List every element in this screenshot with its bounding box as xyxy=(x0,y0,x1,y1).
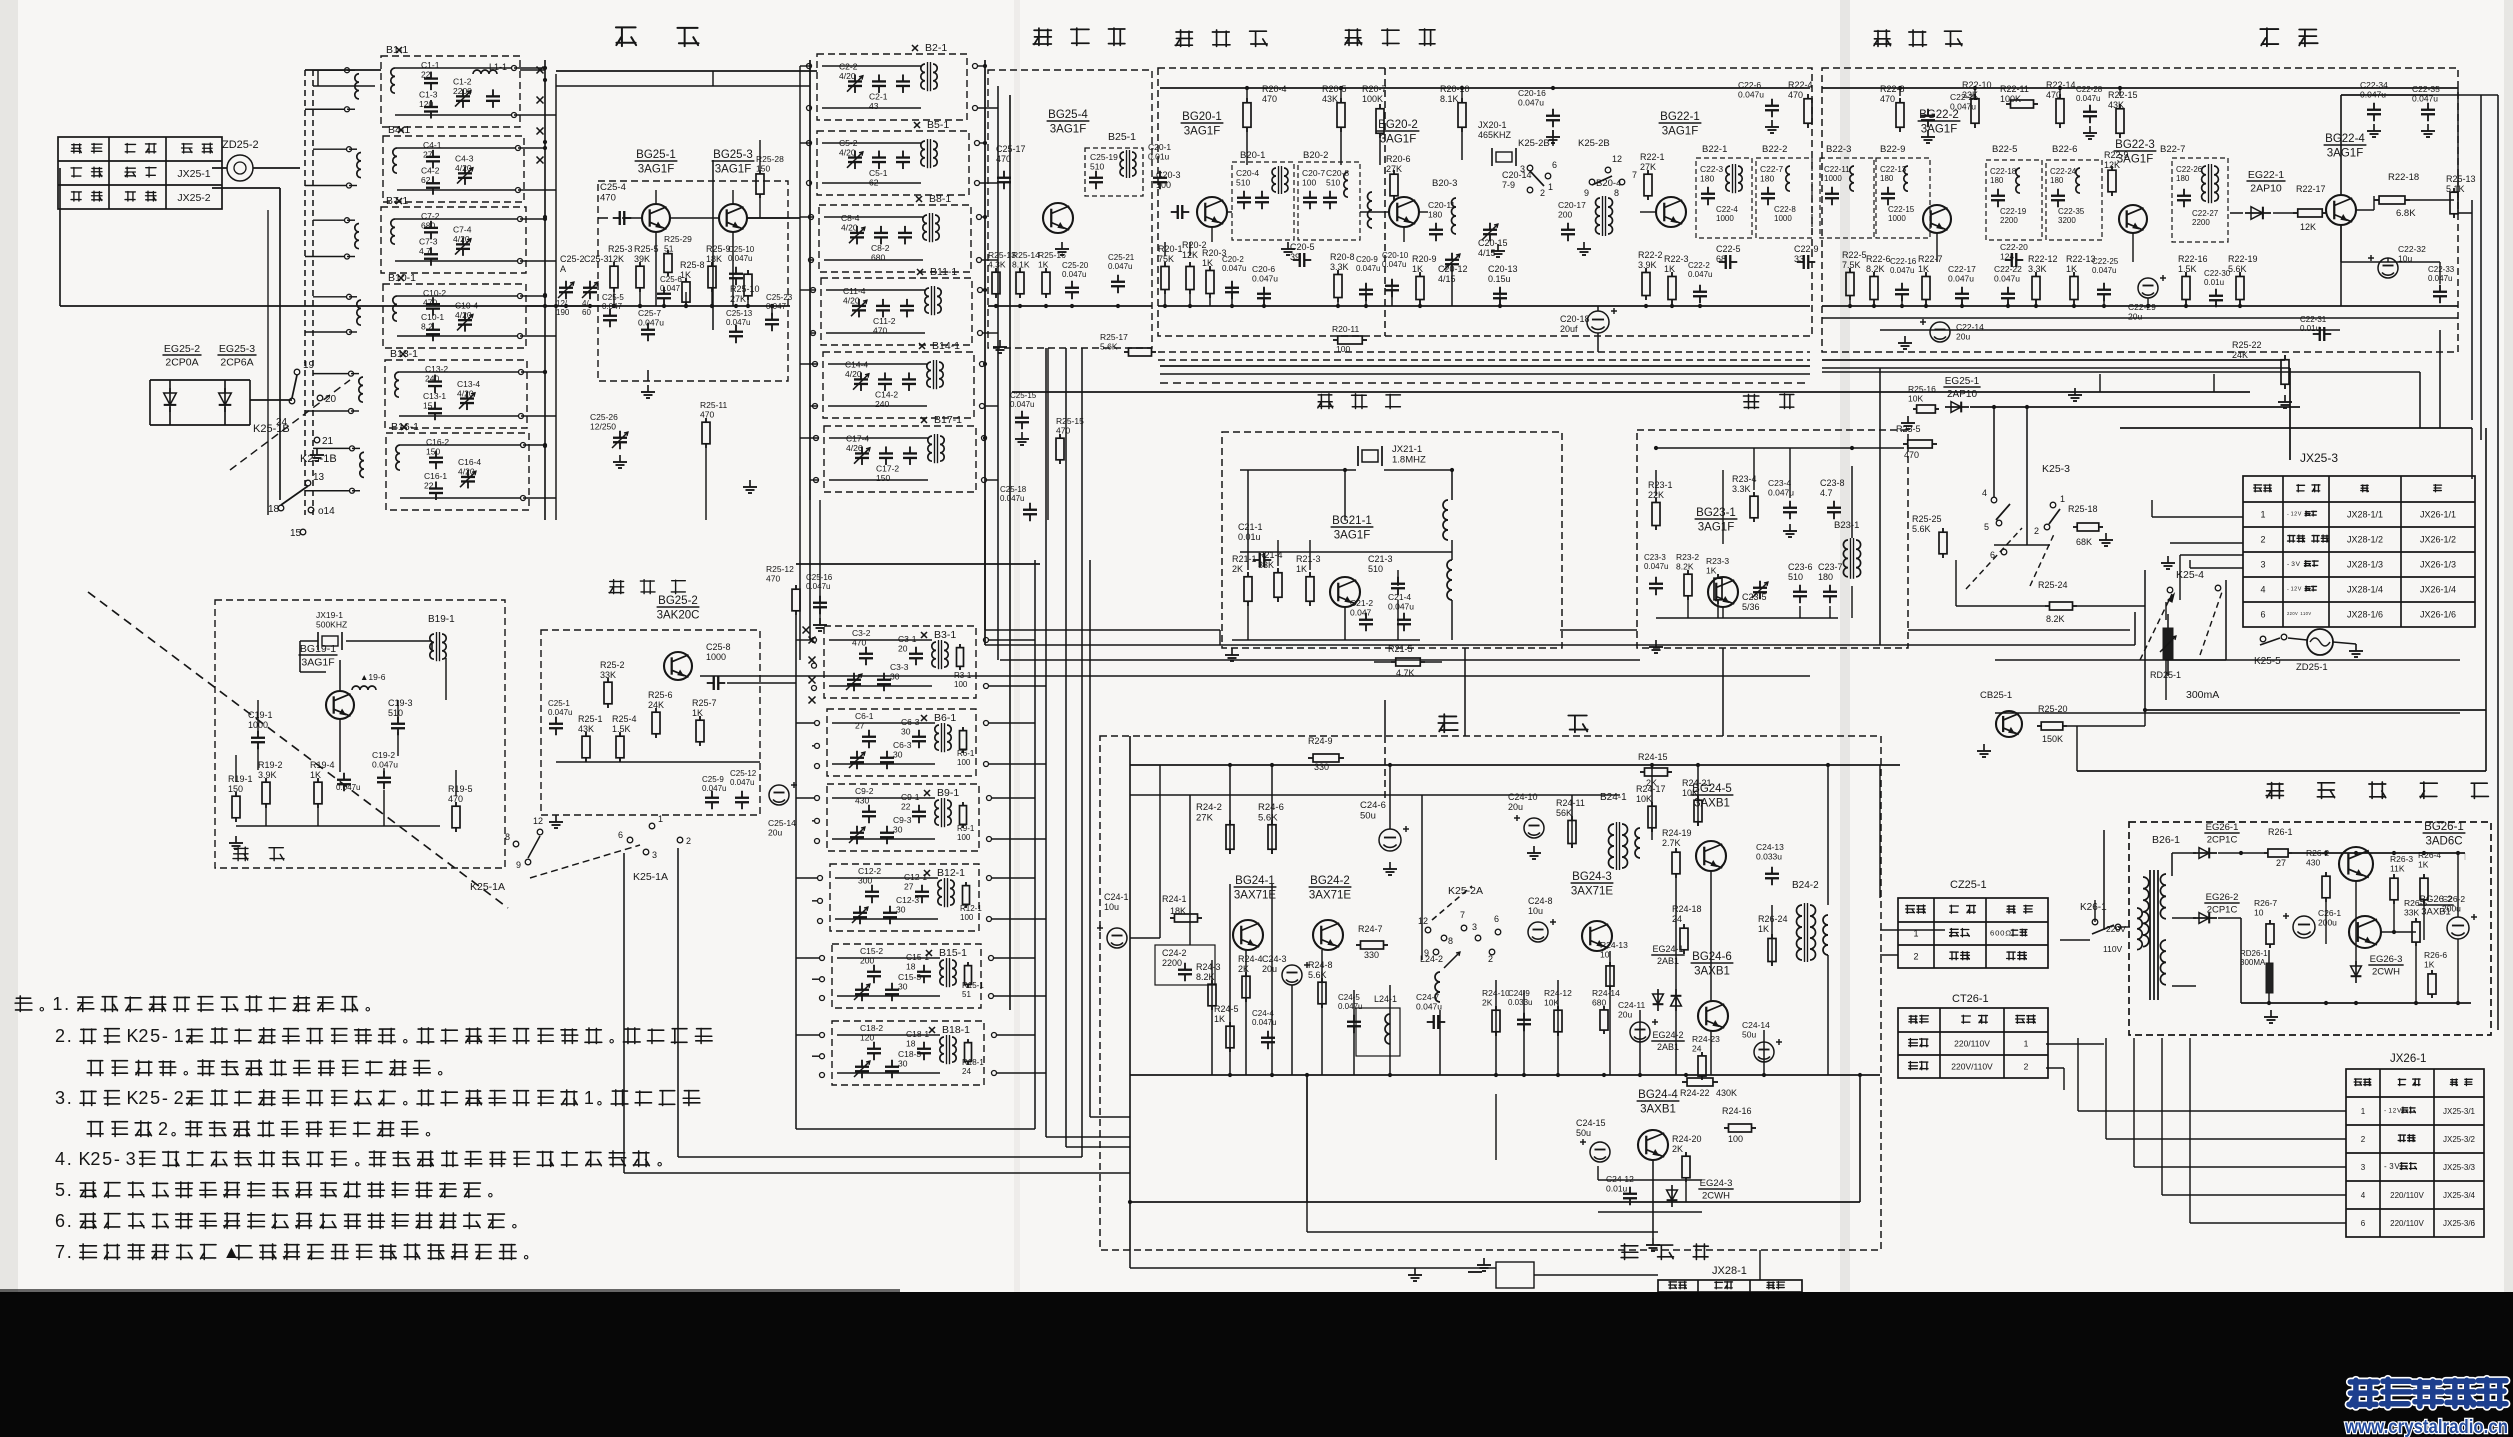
svg-text:1: 1 xyxy=(2361,1107,2366,1116)
IF transformer B15-1 xyxy=(940,960,944,985)
wire into table xyxy=(2152,516,2243,518)
svg-text:V: V xyxy=(2308,611,2311,616)
wire 扁放 internals xyxy=(300,640,318,642)
svg-text:3AG1F: 3AG1F xyxy=(1662,126,1698,138)
svg-text:24: 24 xyxy=(1692,1044,1702,1054)
svg-text:1K: 1K xyxy=(1918,264,1929,274)
svg-text:2: 2 xyxy=(138,1026,148,1046)
svg-text:100: 100 xyxy=(954,680,968,689)
svg-text:JX25-3/4: JX25-3/4 xyxy=(2443,1191,2476,1200)
svg-text:V: V xyxy=(2298,512,2302,518)
svg-text:B17-1: B17-1 xyxy=(934,414,962,426)
svg-text:1K: 1K xyxy=(1758,924,1769,934)
diode EG26-3 xyxy=(2355,961,2357,983)
svg-text:B6-1: B6-1 xyxy=(934,712,956,724)
wire long bus xyxy=(60,305,556,307)
svg-text:C24-4: C24-4 xyxy=(1252,1009,1274,1018)
IF transformer B11-1 xyxy=(925,288,929,313)
diode pair EG24-1/EG24-2 xyxy=(1657,989,1659,1011)
svg-text:EG26-2: EG26-2 xyxy=(2206,892,2239,903)
svg-text:C4-2: C4-2 xyxy=(421,166,440,176)
svg-text:C17-2: C17-2 xyxy=(876,464,899,474)
svg-text:C14-2: C14-2 xyxy=(875,390,898,400)
svg-text:150K: 150K xyxy=(2042,734,2063,744)
svg-text:1K: 1K xyxy=(2066,264,2077,274)
svg-text:330: 330 xyxy=(1314,762,1329,772)
svg-text:12/250: 12/250 xyxy=(590,422,616,432)
svg-text:C25-7: C25-7 xyxy=(638,308,661,318)
resistor R9-1 xyxy=(962,802,964,806)
wire xyxy=(2230,212,2243,214)
svg-text:3.3K: 3.3K xyxy=(2028,264,2047,274)
svg-text:K25-3: K25-3 xyxy=(2042,463,2070,475)
svg-text:R25-8: R25-8 xyxy=(680,260,705,270)
svg-text:C22-26: C22-26 xyxy=(2176,165,2203,174)
wire xyxy=(2292,852,2465,854)
svg-text:510: 510 xyxy=(1326,178,1340,188)
ground xyxy=(1414,1268,1416,1275)
transistor BG25-2 xyxy=(664,652,692,680)
svg-text:0.047u: 0.047u xyxy=(638,318,664,328)
svg-text:K: K xyxy=(127,1088,139,1108)
svg-text:8.2K: 8.2K xyxy=(1676,562,1694,572)
svg-text:C22-17: C22-17 xyxy=(1948,264,1976,274)
svg-text:B19-1: B19-1 xyxy=(428,614,455,625)
band filter B6-1 xyxy=(827,709,976,776)
svg-text:C22-3: C22-3 xyxy=(1700,164,1723,174)
svg-text:C22-25: C22-25 xyxy=(2092,257,2119,266)
wire xyxy=(835,877,938,879)
wire col2-col3 link verticals xyxy=(984,500,986,630)
svg-text:B18-1: B18-1 xyxy=(942,1024,970,1036)
svg-text:R25-29: R25-29 xyxy=(664,234,692,244)
svg-text:5/36: 5/36 xyxy=(1742,602,1760,612)
svg-text:10: 10 xyxy=(2254,908,2264,918)
svg-text:240: 240 xyxy=(425,374,439,384)
wire xyxy=(1970,406,2300,408)
wire bus xyxy=(988,305,1152,307)
svg-text:B20-3: B20-3 xyxy=(1432,178,1457,189)
svg-text:V: V xyxy=(2394,1162,2400,1171)
svg-text:B3-1: B3-1 xyxy=(934,629,956,641)
svg-text:C23-5: C23-5 xyxy=(1742,592,1767,602)
svg-text:470: 470 xyxy=(766,574,780,584)
svg-text:50u: 50u xyxy=(1742,1030,1756,1040)
band filter B5-1 xyxy=(817,131,969,195)
svg-text:1K: 1K xyxy=(1202,258,1213,268)
transistor BG25-1 xyxy=(642,204,670,232)
svg-text:BG23-1: BG23-1 xyxy=(1696,507,1736,519)
svg-text:3AG1F: 3AG1F xyxy=(301,657,334,669)
wire xyxy=(1656,617,1838,619)
svg-text:3AXB1: 3AXB1 xyxy=(1694,798,1730,810)
transistor BG24-3 xyxy=(1582,921,1612,951)
svg-text:R25-9: R25-9 xyxy=(706,244,731,254)
svg-text:C24-6: C24-6 xyxy=(1360,800,1386,811)
svg-text:C6-3: C6-3 xyxy=(901,717,920,727)
wire detector area xyxy=(2341,261,2440,263)
svg-text:0.047u: 0.047u xyxy=(1062,270,1086,279)
svg-text:8.2K: 8.2K xyxy=(1866,264,1885,274)
svg-text:B12-1: B12-1 xyxy=(937,867,965,879)
wire col3 terminals xyxy=(796,639,811,641)
svg-text:0.01u: 0.01u xyxy=(1148,152,1170,162)
svg-text:EG24-2: EG24-2 xyxy=(1652,1030,1683,1040)
wire 高放 links xyxy=(598,217,608,219)
wire xyxy=(822,65,921,67)
svg-text:12: 12 xyxy=(533,816,543,826)
svg-text:0.047u: 0.047u xyxy=(1252,274,1278,284)
wire xyxy=(2060,939,2090,941)
wire xyxy=(2078,1110,2346,1112)
svg-text:R23-2: R23-2 xyxy=(1676,552,1699,562)
svg-text:5: 5 xyxy=(150,1088,160,1108)
svg-text:B20-1: B20-1 xyxy=(1240,150,1265,161)
svg-text:75K: 75K xyxy=(1158,254,1174,264)
svg-text:C20-9: C20-9 xyxy=(1356,255,1378,264)
IF transformer B8-1 xyxy=(923,215,927,240)
electrolytic C22-29 xyxy=(2138,278,2158,298)
svg-text:.: . xyxy=(64,994,69,1014)
svg-text:C7-4: C7-4 xyxy=(453,225,472,235)
wire xyxy=(837,1034,940,1036)
transistor BG24-6 xyxy=(1698,1001,1728,1031)
svg-text:20: 20 xyxy=(325,394,337,405)
wire xyxy=(826,289,925,291)
svg-text:0.047u: 0.047u xyxy=(1108,262,1132,271)
svg-text:B22-7: B22-7 xyxy=(2160,144,2185,155)
svg-text:JX28-1/1: JX28-1/1 xyxy=(2347,510,2383,520)
svg-text:R24-6: R24-6 xyxy=(1258,802,1284,813)
notes text line 3 xyxy=(87,1060,103,1075)
svg-text:3: 3 xyxy=(1472,922,1477,932)
svg-text:R25-16: R25-16 xyxy=(1038,250,1066,260)
svg-text:C25-1: C25-1 xyxy=(548,699,570,708)
svg-text:C25-18: C25-18 xyxy=(1000,485,1027,494)
svg-text:3AG1F: 3AG1F xyxy=(1698,522,1734,534)
junction dots audio top bus xyxy=(1228,763,1232,767)
svg-text:8.2: 8.2 xyxy=(421,322,433,332)
band filter B1-1 xyxy=(381,56,520,127)
notes text line 5 xyxy=(87,1121,103,1136)
svg-text:R20-1: R20-1 xyxy=(1158,244,1183,254)
svg-text:JX26-1: JX26-1 xyxy=(2390,1053,2426,1065)
wire xyxy=(279,210,281,500)
battery table (cut) xyxy=(1658,1280,1802,1292)
wire xyxy=(795,615,797,1129)
dashed inner divider xyxy=(1384,68,1386,336)
svg-text:180: 180 xyxy=(1428,210,1442,220)
svg-text:C22-33: C22-33 xyxy=(2428,265,2455,274)
svg-text:C7-3: C7-3 xyxy=(419,237,438,247)
svg-text:500KHZ: 500KHZ xyxy=(316,620,347,630)
svg-text:200: 200 xyxy=(1558,210,1572,220)
svg-text:.: . xyxy=(67,1242,72,1262)
svg-text:C1-3: C1-3 xyxy=(419,89,438,99)
svg-text:1: 1 xyxy=(2060,494,2065,504)
band filter B8-1 xyxy=(819,205,971,272)
svg-text:120: 120 xyxy=(419,99,433,109)
svg-text:C26-2: C26-2 xyxy=(2442,894,2465,904)
svg-text:B1-1: B1-1 xyxy=(386,44,408,56)
svg-text:R24-1: R24-1 xyxy=(1162,894,1187,904)
svg-text:B24-1: B24-1 xyxy=(1600,792,1627,803)
transistor BG23-1 xyxy=(1708,577,1738,607)
svg-text:BG25-2: BG25-2 xyxy=(658,595,698,607)
svg-text:180: 180 xyxy=(1760,174,1774,184)
wire xyxy=(2077,770,2486,772)
svg-text:2K: 2K xyxy=(1238,964,1249,974)
svg-text:R24-17: R24-17 xyxy=(1636,784,1666,794)
svg-text:C26-1: C26-1 xyxy=(2318,908,2341,918)
svg-text:1000: 1000 xyxy=(706,652,726,662)
svg-text:470: 470 xyxy=(1880,94,1895,104)
svg-text:4/20: 4/20 xyxy=(841,223,858,233)
svg-text:3AG1F: 3AG1F xyxy=(715,164,751,176)
svg-text:1K: 1K xyxy=(692,708,703,718)
svg-text:C25-9: C25-9 xyxy=(702,775,724,784)
wire xyxy=(399,371,518,373)
wire xyxy=(556,761,760,763)
ground xyxy=(1483,1258,1485,1265)
svg-text:K26-1: K26-1 xyxy=(2080,902,2107,913)
svg-text:0.047u: 0.047u xyxy=(1222,264,1246,273)
ground xyxy=(555,815,557,822)
svg-text:200u: 200u xyxy=(2318,918,2337,928)
svg-text:470: 470 xyxy=(600,193,616,204)
band filter B2-1 xyxy=(817,54,967,120)
svg-text:150: 150 xyxy=(426,447,440,457)
svg-text:R12-1: R12-1 xyxy=(960,904,982,913)
svg-text:C24-13: C24-13 xyxy=(1756,842,1784,852)
svg-text:7.5K: 7.5K xyxy=(1842,260,1861,270)
wire xyxy=(212,167,227,169)
svg-text:C16-1: C16-1 xyxy=(424,471,447,481)
svg-text:2K: 2K xyxy=(1672,1144,1683,1154)
svg-text:2200: 2200 xyxy=(2000,216,2018,225)
svg-text:R24-13: R24-13 xyxy=(1600,940,1628,950)
svg-text:BG19-1: BG19-1 xyxy=(300,643,336,655)
svg-text:0.15u: 0.15u xyxy=(1488,274,1511,284)
svg-text:R20-11: R20-11 xyxy=(1332,324,1360,334)
svg-text:EG26-3: EG26-3 xyxy=(2370,954,2403,965)
svg-text:B22-9: B22-9 xyxy=(1880,144,1905,155)
svg-text:470: 470 xyxy=(1904,450,1919,460)
band filter B18-1 xyxy=(832,1021,984,1085)
ground xyxy=(1771,120,1773,127)
svg-text:0.047u: 0.047u xyxy=(1338,1002,1362,1011)
svg-text:R6-1: R6-1 xyxy=(957,749,975,758)
svg-text:R26-7: R26-7 xyxy=(2254,898,2277,908)
svg-text:4: 4 xyxy=(1982,488,1987,498)
wire 低放 internal buses xyxy=(1130,794,1620,796)
wire from HF amp to col2 xyxy=(747,217,800,219)
transistor BG22-4 xyxy=(2326,195,2356,225)
svg-text:4: 4 xyxy=(2260,585,2265,595)
svg-text:C24-14: C24-14 xyxy=(1742,1020,1770,1030)
transistor BG20-2 xyxy=(1389,197,1419,227)
IF transformer B17-1 xyxy=(928,436,932,461)
svg-text:BG21-1: BG21-1 xyxy=(1332,515,1372,527)
svg-text:C22-18: C22-18 xyxy=(1990,167,2017,176)
dashed box 低放 xyxy=(1100,736,1881,1250)
svg-text:R25-24: R25-24 xyxy=(2038,580,2068,590)
svg-text:C20-18: C20-18 xyxy=(1560,314,1590,324)
svg-text:C19-2: C19-2 xyxy=(372,750,395,760)
svg-text:R20-9: R20-9 xyxy=(1412,254,1437,264)
svg-text:18K: 18K xyxy=(1170,906,1186,916)
svg-text:7: 7 xyxy=(55,1242,65,1262)
svg-text:BG20-1: BG20-1 xyxy=(1182,111,1222,123)
svg-text:C22-29: C22-29 xyxy=(2128,302,2156,312)
resistor R24-22 xyxy=(1682,1081,1687,1083)
ground xyxy=(1983,744,1985,751)
svg-text:R9-1: R9-1 xyxy=(957,824,975,833)
svg-text:180: 180 xyxy=(1990,176,2004,185)
coil L1-1 xyxy=(473,70,497,74)
svg-text:4.7: 4.7 xyxy=(1820,488,1833,498)
wire xyxy=(235,755,237,782)
svg-text:470: 470 xyxy=(1262,94,1277,104)
svg-text:6: 6 xyxy=(1552,160,1557,170)
svg-text:C20-2: C20-2 xyxy=(1222,255,1244,264)
svg-text:C20-3: C20-3 xyxy=(1156,170,1181,180)
svg-text:C20-5: C20-5 xyxy=(1290,242,1315,252)
svg-text:24K: 24K xyxy=(2232,350,2248,360)
svg-text:0.047u: 0.047u xyxy=(1000,494,1024,503)
svg-text:33K: 33K xyxy=(1258,560,1274,570)
svg-text:BG25-4: BG25-4 xyxy=(1048,109,1088,121)
section title 二中放 xyxy=(1874,30,1891,46)
svg-text:B20-4: B20-4 xyxy=(1596,178,1621,189)
svg-text:C20-4: C20-4 xyxy=(1236,168,1259,178)
svg-text:240: 240 xyxy=(875,399,889,409)
svg-text:2AP10: 2AP10 xyxy=(1947,389,1977,400)
svg-text:C21-3: C21-3 xyxy=(1368,554,1393,564)
svg-text:R25-18: R25-18 xyxy=(2068,504,2098,514)
svg-text:-: - xyxy=(162,1026,168,1046)
svg-text:62: 62 xyxy=(421,175,431,185)
wire xyxy=(622,217,642,219)
svg-text:K25-1A: K25-1A xyxy=(633,871,668,883)
svg-text:C13-4: C13-4 xyxy=(457,379,480,389)
svg-text:C25-26: C25-26 xyxy=(590,412,618,422)
svg-text:C20-14: C20-14 xyxy=(1502,170,1532,180)
junction dots HF bus xyxy=(564,304,568,308)
wire xyxy=(2464,853,2466,860)
svg-text:8: 8 xyxy=(505,832,510,842)
svg-text:470: 470 xyxy=(700,410,714,420)
svg-text:C25-5: C25-5 xyxy=(602,293,624,302)
svg-text:K: K xyxy=(79,1149,91,1169)
wire xyxy=(2218,852,2264,854)
svg-text:0.047u: 0.047u xyxy=(372,760,398,770)
svg-text:C20-16: C20-16 xyxy=(1518,88,1546,98)
wire right-bottom links xyxy=(1898,929,1945,931)
svg-text:3AG1F: 3AG1F xyxy=(1334,530,1370,542)
svg-text:510: 510 xyxy=(1788,572,1803,582)
svg-text:-: - xyxy=(114,1149,120,1169)
svg-text:0.047u: 0.047u xyxy=(1994,274,2020,284)
svg-text:0.047u: 0.047u xyxy=(1890,266,1914,275)
svg-text:R25-2: R25-2 xyxy=(600,660,625,670)
wire bus 2 xyxy=(1822,305,2458,307)
transistor BG25-3 xyxy=(719,204,747,232)
svg-text:C25-8: C25-8 xyxy=(706,642,731,652)
dashed divider xyxy=(1384,736,1386,800)
svg-text:100: 100 xyxy=(960,913,974,922)
svg-text:0.047u: 0.047u xyxy=(1950,102,1976,112)
svg-text:100K: 100K xyxy=(1362,94,1383,104)
svg-text:R25-1: R25-1 xyxy=(578,714,603,724)
wire mid-page horizontals xyxy=(700,675,1810,677)
notes text line 1 xyxy=(15,996,32,1012)
svg-text:3: 3 xyxy=(126,1149,136,1169)
svg-text:20u: 20u xyxy=(768,828,782,838)
svg-text:R21-1: R21-1 xyxy=(1232,554,1257,564)
wire xyxy=(397,147,515,149)
svg-text:9: 9 xyxy=(1584,188,1589,198)
svg-text:2200: 2200 xyxy=(1162,958,1182,968)
svg-text:0.047u: 0.047u xyxy=(1356,264,1380,273)
svg-text:EG25-2: EG25-2 xyxy=(164,343,200,355)
svg-text:R24-5: R24-5 xyxy=(1214,1004,1239,1014)
ground xyxy=(1021,432,1023,439)
section title 检波 xyxy=(2260,28,2278,46)
transistor BG19-1 xyxy=(326,691,354,719)
wire xyxy=(2288,638,2307,640)
svg-text:R25-25: R25-25 xyxy=(1912,514,1942,524)
svg-text:BG24-1: BG24-1 xyxy=(1235,875,1275,887)
svg-text:R25-11: R25-11 xyxy=(700,400,728,410)
svg-text:3AX71E: 3AX71E xyxy=(1571,886,1614,898)
svg-text:B7-1: B7-1 xyxy=(386,195,408,207)
svg-text:R22-15: R22-15 xyxy=(2108,90,2138,100)
svg-text:JX19-1: JX19-1 xyxy=(316,610,343,620)
svg-text:0.047u: 0.047u xyxy=(1738,90,1764,100)
svg-text:C25-23: C25-23 xyxy=(766,293,793,302)
svg-text:220/110V: 220/110V xyxy=(1954,1039,1990,1049)
scan fold shading xyxy=(1840,0,1850,1292)
svg-text:3: 3 xyxy=(2361,1163,2366,1172)
svg-text:100: 100 xyxy=(1302,178,1316,188)
svg-text:R22-5: R22-5 xyxy=(1842,250,1867,260)
svg-text:C2-1: C2-1 xyxy=(869,92,888,102)
svg-text:27: 27 xyxy=(855,721,865,731)
svg-text:2: 2 xyxy=(2024,1062,2029,1072)
svg-text:24: 24 xyxy=(962,1067,971,1076)
svg-text:1.5K: 1.5K xyxy=(612,724,631,734)
transistor BG24-1 xyxy=(1233,920,1263,950)
svg-text:1000: 1000 xyxy=(1824,174,1842,183)
svg-text:R26-6: R26-6 xyxy=(2424,950,2447,960)
svg-text:510: 510 xyxy=(1090,162,1104,172)
svg-text:BG24-3: BG24-3 xyxy=(1572,871,1612,883)
svg-text:1K: 1K xyxy=(1664,264,1675,274)
transistor BG24-4 xyxy=(1638,1130,1668,1160)
svg-text:R19-1: R19-1 xyxy=(228,774,253,784)
svg-text:2.7K: 2.7K xyxy=(1662,838,1681,848)
svg-text:60: 60 xyxy=(582,308,591,317)
wire 二本振 internals xyxy=(1240,469,1356,471)
svg-text:22: 22 xyxy=(901,802,911,812)
ground xyxy=(819,618,821,625)
dashed wire pair xyxy=(304,70,306,515)
svg-text:120: 120 xyxy=(860,1033,874,1043)
svg-text:0.033u: 0.033u xyxy=(1756,852,1782,862)
svg-text:JX25-3/1: JX25-3/1 xyxy=(2443,1107,2476,1116)
svg-text:24: 24 xyxy=(276,417,288,428)
